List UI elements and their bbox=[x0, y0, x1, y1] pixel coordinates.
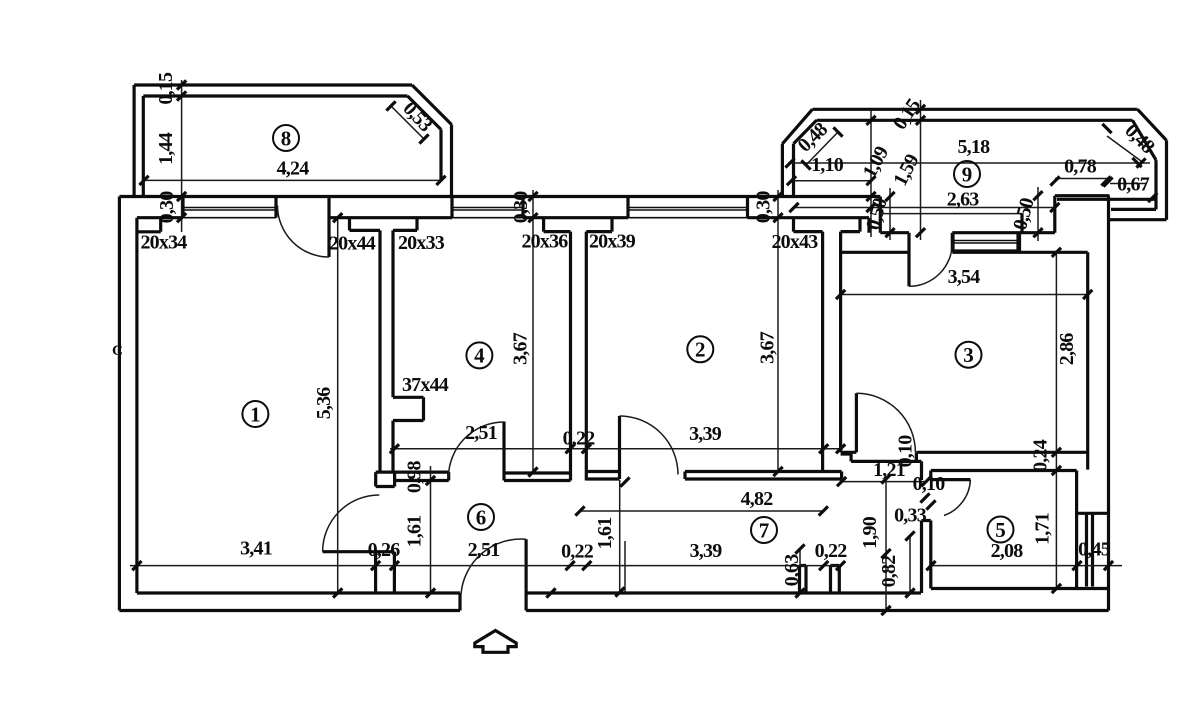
svg-text:20x36: 20x36 bbox=[521, 231, 568, 253]
svg-text:0,33: 0,33 bbox=[894, 504, 927, 526]
svg-text:1,71: 1,71 bbox=[1031, 513, 1053, 545]
svg-text:0,30: 0,30 bbox=[156, 191, 178, 224]
svg-text:5,36: 5,36 bbox=[313, 387, 335, 420]
svg-text:1,10: 1,10 bbox=[811, 154, 844, 176]
svg-text:1,61: 1,61 bbox=[403, 516, 425, 548]
svg-text:0,26: 0,26 bbox=[368, 539, 401, 561]
svg-text:4: 4 bbox=[474, 344, 485, 368]
svg-text:6: 6 bbox=[476, 505, 487, 529]
svg-text:5: 5 bbox=[995, 518, 1006, 542]
svg-text:C: C bbox=[112, 343, 123, 359]
svg-text:3,67: 3,67 bbox=[509, 332, 531, 365]
svg-text:1: 1 bbox=[250, 402, 261, 426]
svg-text:3,67: 3,67 bbox=[757, 331, 779, 364]
svg-text:0,24: 0,24 bbox=[1029, 439, 1051, 472]
svg-text:4,82: 4,82 bbox=[741, 488, 774, 510]
svg-text:20x43: 20x43 bbox=[771, 231, 818, 253]
svg-text:2,63: 2,63 bbox=[947, 188, 980, 210]
svg-text:20x33: 20x33 bbox=[398, 232, 445, 254]
svg-text:3,39: 3,39 bbox=[690, 540, 723, 562]
svg-text:20x44: 20x44 bbox=[329, 232, 376, 254]
svg-text:0,30: 0,30 bbox=[510, 191, 532, 224]
svg-text:0,22: 0,22 bbox=[561, 540, 594, 562]
svg-text:0,45: 0,45 bbox=[1078, 538, 1111, 560]
svg-text:0,78: 0,78 bbox=[1064, 156, 1097, 178]
svg-text:3,54: 3,54 bbox=[948, 266, 981, 288]
svg-text:4,24: 4,24 bbox=[277, 157, 310, 179]
svg-text:0,67: 0,67 bbox=[1117, 173, 1150, 195]
svg-text:8: 8 bbox=[281, 126, 292, 150]
svg-text:0,98: 0,98 bbox=[404, 461, 426, 494]
svg-text:3,41: 3,41 bbox=[240, 537, 272, 559]
svg-text:1,44: 1,44 bbox=[155, 132, 177, 165]
svg-text:0,82: 0,82 bbox=[878, 555, 900, 588]
svg-text:2: 2 bbox=[695, 338, 706, 362]
svg-text:0,22: 0,22 bbox=[815, 540, 848, 562]
svg-text:0,10: 0,10 bbox=[913, 473, 946, 495]
svg-text:20x39: 20x39 bbox=[589, 230, 636, 252]
svg-text:3: 3 bbox=[963, 343, 974, 367]
svg-text:5,18: 5,18 bbox=[957, 136, 990, 158]
svg-text:0,15: 0,15 bbox=[155, 72, 177, 105]
svg-text:20x34: 20x34 bbox=[140, 231, 187, 253]
svg-text:2,51: 2,51 bbox=[468, 539, 500, 561]
svg-text:7: 7 bbox=[759, 518, 770, 542]
svg-text:0,30: 0,30 bbox=[752, 191, 774, 224]
svg-text:0,10: 0,10 bbox=[894, 435, 916, 468]
svg-text:2,51: 2,51 bbox=[465, 422, 497, 444]
svg-text:2,86: 2,86 bbox=[1056, 333, 1078, 366]
svg-text:2,08: 2,08 bbox=[991, 540, 1024, 562]
svg-text:37x44: 37x44 bbox=[402, 374, 449, 396]
svg-text:1,61: 1,61 bbox=[594, 518, 616, 550]
svg-text:0,63: 0,63 bbox=[781, 554, 803, 587]
svg-text:3,39: 3,39 bbox=[689, 423, 722, 445]
svg-text:9: 9 bbox=[962, 162, 973, 186]
svg-text:1,90: 1,90 bbox=[859, 516, 881, 549]
svg-text:0,22: 0,22 bbox=[563, 427, 596, 449]
